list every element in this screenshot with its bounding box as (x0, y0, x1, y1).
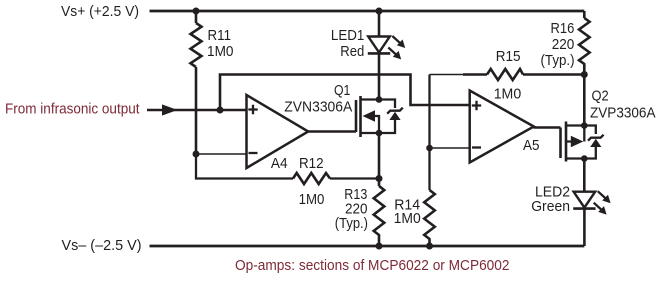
svg-text:Red: Red (340, 43, 364, 60)
svg-text:ZVP3306A: ZVP3306A (590, 104, 656, 121)
svg-text:R15: R15 (496, 48, 521, 65)
svg-text:ZVN3306A: ZVN3306A (284, 98, 352, 115)
svg-text:Vs+ (+2.5 V): Vs+ (+2.5 V) (61, 3, 139, 20)
svg-text:R11: R11 (208, 27, 232, 44)
svg-text:From infrasonic output: From infrasonic output (5, 101, 140, 118)
svg-text:1M0: 1M0 (207, 43, 234, 60)
svg-text:1M0: 1M0 (299, 191, 325, 208)
svg-text:A5: A5 (523, 137, 540, 154)
svg-text:1M0: 1M0 (394, 210, 421, 227)
svg-text:Q1: Q1 (334, 82, 350, 99)
svg-text:R16: R16 (551, 20, 575, 37)
svg-text:LED1: LED1 (331, 27, 364, 44)
svg-text:Q2: Q2 (592, 88, 609, 105)
svg-text:(Typ.): (Typ.) (335, 215, 368, 232)
svg-text:220: 220 (552, 36, 575, 53)
svg-text:A4: A4 (271, 155, 288, 172)
svg-text:Green: Green (531, 198, 570, 215)
svg-text:Op-amps: sections of MCP6022 o: Op-amps: sections of MCP6022 or MCP6002 (235, 257, 510, 274)
svg-text:(Typ.): (Typ.) (541, 52, 575, 69)
svg-text:Vs– (–2.5 V): Vs– (–2.5 V) (62, 237, 142, 254)
svg-text:1M0: 1M0 (494, 85, 522, 102)
svg-text:R12: R12 (299, 155, 324, 172)
